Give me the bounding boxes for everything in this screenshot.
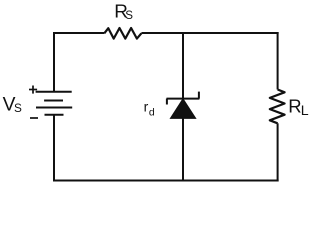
plus sign [29, 86, 37, 94]
svg-text:S: S [125, 9, 133, 22]
right hook [198, 92, 200, 99]
plate 4 short (-) [45, 114, 64, 116]
label rd [144, 98, 155, 118]
cathode bar [167, 98, 200, 100]
left hook [166, 99, 168, 105]
wire top-left segment [53, 32, 104, 34]
svg-text:S: S [14, 101, 22, 115]
wire left vertical upper [53, 32, 55, 92]
anode triangle [170, 99, 195, 119]
voltage source VS (battery) [36, 92, 73, 115]
label VS [3, 95, 22, 116]
wire right vertical upper [277, 32, 279, 90]
resistor RL [270, 90, 285, 124]
svg-text:R: R [288, 96, 301, 117]
wire left vertical lower [53, 115, 55, 182]
minus sign [30, 117, 38, 119]
wire right vertical lower [277, 123, 279, 181]
svg-text:r: r [144, 98, 149, 114]
wire bottom [53, 180, 279, 182]
wire top-right segment [141, 32, 278, 34]
zener diode rd [167, 92, 200, 119]
plate 3 long [36, 107, 72, 109]
wire middle vertical lower [182, 118, 184, 182]
svg-text:d: d [149, 106, 155, 118]
plate 1 long (+) [36, 91, 72, 93]
wire middle vertical upper [182, 32, 184, 99]
label RL [288, 96, 309, 119]
resistor RS [104, 28, 141, 39]
plate 2 short [44, 100, 63, 102]
svg-text:L: L [301, 103, 309, 119]
label RS [114, 2, 133, 23]
